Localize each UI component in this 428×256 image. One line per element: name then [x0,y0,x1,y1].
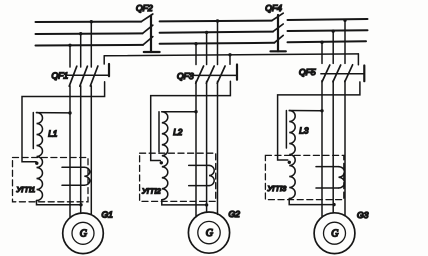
wire (L2 bottom lead to phase B) [162,200,207,205]
bus line 1 (top busbar) [36,19,368,22]
wire (section 2 phase drops, lower, to generator) [196,81,218,217]
wire (section 2 phase drops, upper) [196,21,218,65]
wire (L3 bottom lead to phase B) [289,199,334,205]
node (tap on L2 coil) [160,161,163,164]
node (junction of aux bus and QF3 aux leg) [228,53,231,56]
svg-text:L2: L2 [173,128,183,137]
breaker QF4 (bus-tie) [271,13,286,51]
wire (aux leg QF3) [229,55,231,65]
wire (L1 bottom lead to phase B) [37,201,82,205]
generator G1 (machine circles) [63,213,104,254]
wire (L3 top lead to phase A) [289,110,322,112]
wire (L1 top lead to phase A) [37,112,71,114]
svg-text:QF1: QF1 [52,71,69,81]
wire (QF1 aux contact lower lead and run to UGP1) [22,82,105,162]
breaker QF3 (generator G2) [192,65,237,84]
inductor L2 (choke core) [158,112,160,152]
node (L1 to phase A junction) [68,111,71,114]
inductor L3 (winding, continues into UGP3) [289,111,295,199]
svg-text:УГП1: УГП1 [16,185,36,194]
box UGP2 (dashed enclosure) [140,153,216,201]
wire (section 1 phase drops, lower, to generator) [70,86,91,218]
svg-text:УГП2: УГП2 [141,187,161,196]
wire (QF3 aux contact lower lead and run to UGP2) [151,81,231,160]
node (bus taps section 2) [194,19,219,45]
svg-text:УГП3: УГП3 [267,184,287,193]
winding (UGP1 secondary leads) [62,167,84,185]
inductor L3 (choke core) [285,111,287,149]
breaker QF5 (generator G3) [321,65,364,82]
winding (UGP2 secondary coil) [209,165,214,185]
node (bus taps section 3) [320,19,346,44]
svg-text:L3: L3 [299,127,309,136]
winding (UGP3 secondary coil) [339,167,345,188]
box UGP3 (dashed enclosure) [265,155,343,199]
box UGP1 (dashed enclosure) [13,158,89,202]
node (coil bottom to phase B junction) [79,203,82,206]
svg-text:G: G [331,229,338,240]
wire (aux leg QF5) [357,54,359,65]
winding (UGP2 secondary leads) [189,165,209,185]
svg-text:G: G [80,229,87,240]
wire (auxiliary control bus) [104,54,358,56]
generator G2 (machine circles) [188,212,229,253]
node (tap on L3 coil) [288,161,291,164]
wire (L2 top lead to phase A) [162,111,196,113]
node (coil bottom to phase B junction) [332,203,335,206]
wire (section 3 phase drops, upper) [322,20,345,63]
node (L3 to phase A junction) [320,109,323,112]
wire (aux leg QF1) [103,56,105,64]
inductor L1 (winding, continues into UGP1) [37,113,43,201]
node (bus taps section 1) [68,20,93,47]
node (tap on L1 coil) [35,162,38,165]
wire (QF5 aux contact lower lead and run to UGP3) [278,82,360,160]
svg-text:L1: L1 [48,130,57,139]
svg-text:QF4: QF4 [265,3,282,13]
wire (section 1 phase drops, upper) [70,22,91,67]
winding (UGP1 secondary coil) [84,167,90,185]
svg-text:G3: G3 [357,210,369,220]
inductor L1 (choke core) [32,113,34,149]
wire (section 3 phase drops, lower, to generator) [322,81,345,218]
bus line 3 (bottom busbar) [36,41,367,45]
svg-text:QF2: QF2 [136,3,153,13]
breaker QF2 (bus-tie) [141,14,159,52]
svg-text:G: G [206,228,213,239]
svg-text:G2: G2 [229,209,241,219]
generator G3 (machine circles) [314,213,355,254]
svg-text:QF5: QF5 [299,67,316,77]
winding (UGP3 secondary leads) [316,167,339,188]
svg-text:QF3: QF3 [177,71,194,81]
inductor L2 (winding, continues into UGP2) [162,112,168,200]
node (coil bottom to phase B junction) [205,203,208,206]
breaker QF1 (generator G1) [67,64,109,86]
svg-text:G1: G1 [102,210,114,220]
node (L2 to phase A junction) [194,110,197,113]
bus line 2 (middle busbar) [36,30,368,34]
